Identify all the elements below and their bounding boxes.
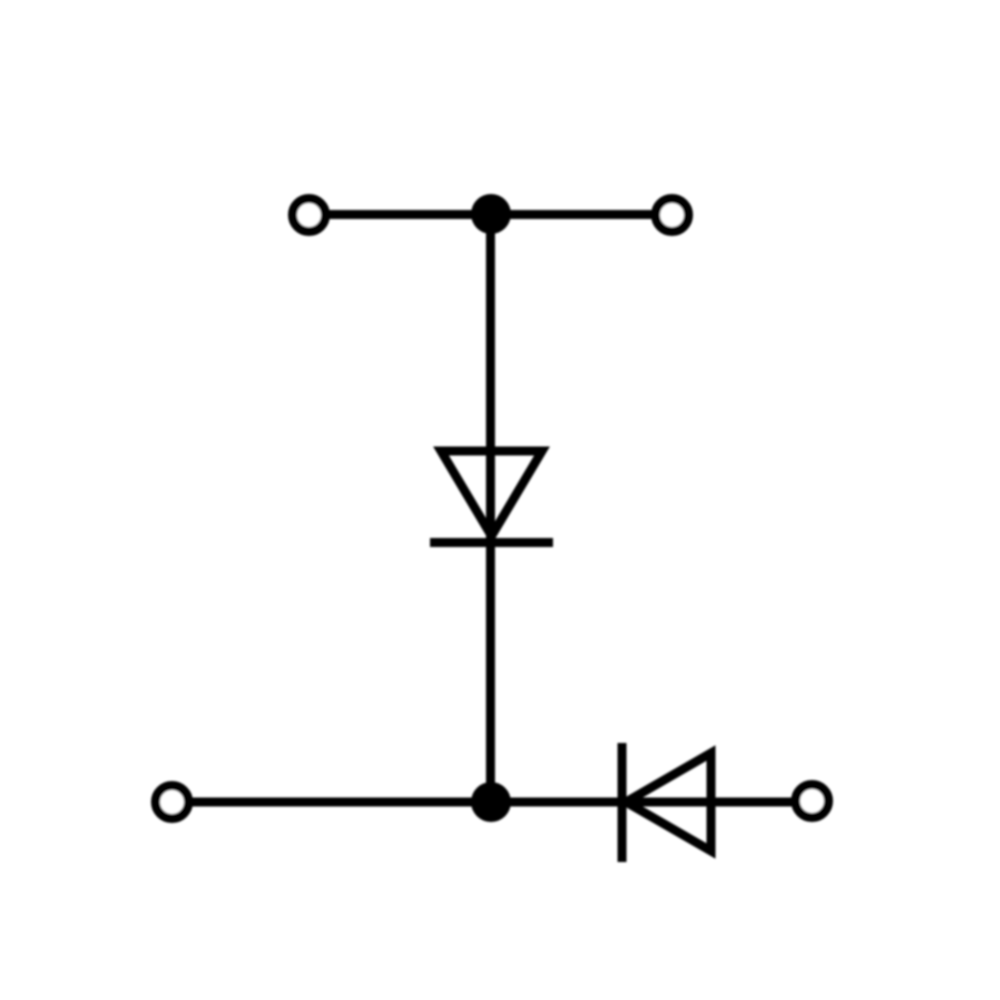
junction node bottom (471, 782, 511, 822)
terminal circle bottom-left (156, 786, 189, 819)
diode D2 cathode bar (618, 743, 627, 862)
wire bottom rail (172, 798, 812, 807)
terminal circle top-left (293, 199, 326, 232)
junction node top (471, 194, 511, 234)
terminal circle bottom-right (796, 785, 829, 818)
diode D1 anode triangle (pointing down) (441, 451, 542, 536)
diode D2 anode triangle (pointing left) (626, 753, 711, 851)
wire vertical from top junction to bottom junction (486, 214, 495, 802)
wire top rail (309, 210, 672, 219)
terminal circle top-right (656, 199, 689, 232)
diode D1 cathode bar (430, 538, 553, 547)
